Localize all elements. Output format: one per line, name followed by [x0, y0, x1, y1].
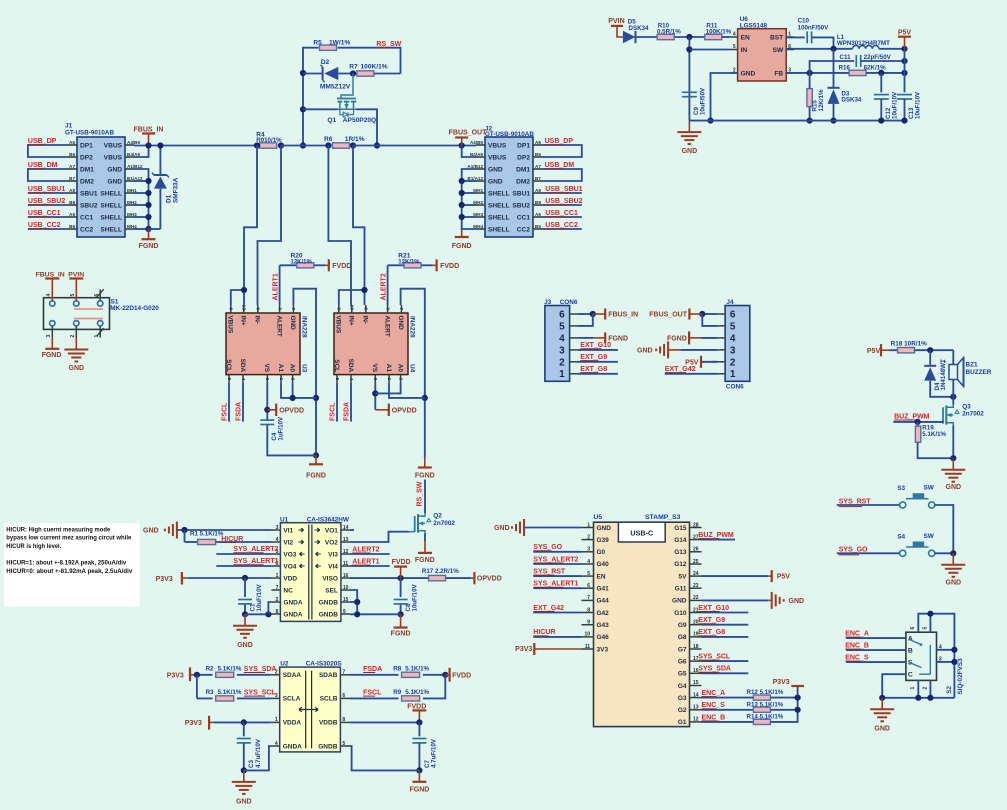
- svg-text:DP1: DP1: [517, 142, 530, 149]
- svg-text:R2: R2: [206, 665, 214, 672]
- svg-text:1W/1%: 1W/1%: [329, 40, 350, 47]
- svg-text:GND: GND: [946, 484, 962, 491]
- svg-text:4: 4: [348, 378, 354, 381]
- svg-text:A6: A6: [69, 140, 75, 145]
- svg-text:G5: G5: [678, 671, 687, 678]
- svg-text:3: 3: [559, 345, 565, 356]
- svg-text:GND: GND: [488, 166, 503, 173]
- svg-text:2: 2: [730, 357, 736, 368]
- svg-text:P5V: P5V: [867, 348, 881, 355]
- svg-text:GND: GND: [741, 70, 756, 77]
- svg-text:B1/A12: B1/A12: [467, 176, 483, 181]
- svg-text:G12: G12: [674, 561, 687, 568]
- svg-text:Q3: Q3: [962, 404, 971, 411]
- svg-text:GND: GND: [946, 579, 962, 586]
- svg-text:IN: IN: [741, 47, 748, 54]
- svg-text:Q2: Q2: [433, 513, 442, 520]
- svg-text:GT-USB-9010AB: GT-USB-9010AB: [485, 131, 534, 138]
- svg-text:FGND: FGND: [667, 336, 687, 343]
- svg-text:2: 2: [559, 357, 565, 368]
- svg-text:4.7uF/10V: 4.7uF/10V: [255, 738, 262, 768]
- svg-text:4: 4: [730, 333, 736, 344]
- svg-text:bypass low current mez asuring: bypass low current mez asuring circut wh…: [6, 536, 132, 542]
- svg-text:VBUS: VBUS: [104, 154, 123, 161]
- svg-text:GND: GND: [143, 528, 159, 535]
- svg-text:DP1: DP1: [80, 142, 93, 149]
- svg-text:8: 8: [336, 307, 342, 310]
- svg-text:GND: GND: [397, 316, 404, 331]
- svg-text:SYS_SDA: SYS_SDA: [244, 666, 277, 673]
- svg-text:A7: A7: [69, 164, 75, 169]
- svg-text:ALERT2: ALERT2: [380, 273, 387, 300]
- svg-text:EXT_G42: EXT_G42: [533, 605, 564, 612]
- svg-text:A8: A8: [535, 188, 541, 193]
- svg-text:B1/A12: B1/A12: [127, 176, 143, 181]
- svg-text:1: 1: [559, 369, 565, 380]
- svg-text:SCLB: SCLB: [320, 696, 338, 703]
- svg-text:GT-USB-9010AB: GT-USB-9010AB: [65, 130, 114, 137]
- svg-text:1uF/10V: 1uF/10V: [277, 416, 284, 441]
- svg-text:FGND: FGND: [391, 631, 411, 638]
- svg-text:SHELL: SHELL: [488, 190, 510, 197]
- svg-text:0.5R/1%: 0.5R/1%: [657, 29, 681, 36]
- svg-text:IN+: IN+: [240, 316, 247, 326]
- svg-text:VBUS: VBUS: [488, 154, 507, 161]
- svg-text:G14: G14: [674, 537, 687, 544]
- svg-text:GND: GND: [874, 726, 890, 733]
- svg-text:DM1: DM1: [516, 166, 530, 173]
- svg-text:GND: GND: [789, 598, 805, 605]
- svg-text:BUZ_PWM: BUZ_PWM: [894, 413, 930, 420]
- svg-text:5: 5: [226, 378, 232, 381]
- svg-text:USB_SBU2: USB_SBU2: [545, 198, 582, 205]
- svg-text:G46: G46: [597, 634, 610, 641]
- svg-text:U1: U1: [280, 516, 289, 523]
- svg-text:SHELL: SHELL: [488, 214, 510, 221]
- svg-text:4: 4: [240, 378, 246, 381]
- svg-text:2: 2: [289, 378, 295, 381]
- svg-text:A6: A6: [535, 140, 541, 145]
- svg-text:SHELL: SHELL: [488, 202, 510, 209]
- svg-text:FGND: FGND: [306, 472, 326, 479]
- svg-text:SBU2: SBU2: [80, 202, 98, 209]
- svg-text:OPVDD: OPVDD: [392, 407, 417, 414]
- svg-text:GND: GND: [494, 525, 510, 532]
- svg-text:DM2: DM2: [80, 178, 94, 185]
- svg-text:VBUS: VBUS: [488, 142, 507, 149]
- svg-text:5.1K/1%: 5.1K/1%: [218, 665, 242, 672]
- svg-text:P3V3: P3V3: [515, 646, 532, 653]
- svg-text:SIQ-02FVS3: SIQ-02FVS3: [957, 658, 964, 695]
- svg-text:D1: D1: [166, 194, 173, 203]
- svg-text:Q1: Q1: [327, 117, 336, 124]
- svg-text:IN-: IN-: [254, 316, 261, 325]
- svg-text:CA-IS3642HW: CA-IS3642HW: [307, 516, 350, 523]
- svg-text:MH2: MH2: [473, 200, 483, 205]
- svg-text:FSCL: FSCL: [363, 690, 382, 697]
- svg-text:GND: GND: [107, 166, 122, 173]
- svg-text:B5: B5: [535, 224, 541, 229]
- svg-text:10uF/10V: 10uF/10V: [256, 583, 263, 611]
- svg-text:5.1K/1%: 5.1K/1%: [922, 431, 946, 438]
- svg-text:G6: G6: [678, 658, 687, 665]
- svg-text:10: 10: [241, 305, 247, 311]
- svg-text:GNDB: GNDB: [319, 611, 338, 618]
- svg-text:FBUS_IN: FBUS_IN: [608, 312, 638, 319]
- svg-text:SBU1: SBU1: [512, 190, 530, 197]
- svg-text:G10: G10: [674, 610, 687, 617]
- svg-text:FGND: FGND: [608, 336, 628, 343]
- svg-text:HICUR=1: about +-8.192A peak,: HICUR=1: about +-8.192A peak, 250uA/div: [6, 560, 127, 566]
- svg-text:GND: GND: [237, 642, 253, 649]
- svg-text:R18 10R/1%: R18 10R/1%: [891, 340, 928, 347]
- svg-text:R5: R5: [313, 40, 322, 47]
- svg-text:6: 6: [559, 310, 565, 321]
- svg-text:10uF/10V: 10uF/10V: [412, 583, 419, 611]
- svg-text:INA228: INA228: [409, 316, 416, 338]
- svg-text:10uF/50V: 10uF/50V: [700, 87, 707, 115]
- svg-text:R13 5.1K/1%: R13 5.1K/1%: [747, 701, 784, 708]
- svg-text:4.7uF/10V: 4.7uF/10V: [430, 738, 437, 768]
- svg-text:SYS_ALERT1: SYS_ALERT1: [233, 558, 278, 565]
- svg-text:SCLA: SCLA: [283, 696, 301, 703]
- svg-text:HICUR is high level.: HICUR is high level.: [6, 544, 61, 550]
- svg-text:C: C: [908, 672, 913, 679]
- svg-text:A1/B12: A1/B12: [467, 164, 483, 169]
- svg-text:USB_CC1: USB_CC1: [28, 210, 61, 217]
- svg-text:DP2: DP2: [80, 154, 93, 161]
- svg-text:VDDA: VDDA: [283, 720, 302, 727]
- svg-text:FGND: FGND: [409, 787, 429, 794]
- svg-text:10uF/10V: 10uF/10V: [891, 91, 898, 119]
- svg-text:5: 5: [559, 321, 565, 332]
- svg-text:FSCL: FSCL: [222, 402, 229, 421]
- svg-text:DSK34: DSK34: [841, 97, 862, 104]
- svg-text:HICUR: HICUR: [221, 536, 243, 543]
- svg-text:A8: A8: [69, 188, 75, 193]
- svg-text:USB_DP: USB_DP: [28, 138, 57, 145]
- svg-text:VBUS: VBUS: [335, 316, 342, 334]
- svg-text:EN: EN: [597, 573, 606, 580]
- svg-text:VBUS: VBUS: [227, 316, 234, 334]
- svg-text:3: 3: [384, 307, 390, 310]
- svg-text:SDAB: SDAB: [319, 672, 338, 679]
- svg-text:G2: G2: [678, 707, 687, 714]
- svg-text:22pF/50V: 22pF/50V: [864, 54, 892, 61]
- svg-text:SDAA: SDAA: [283, 672, 302, 679]
- svg-text:5.1K/1%: 5.1K/1%: [405, 665, 429, 672]
- svg-text:GND: GND: [672, 598, 687, 605]
- svg-text:EXT_G42: EXT_G42: [665, 366, 696, 373]
- svg-text:2: 2: [70, 335, 76, 338]
- svg-text:MH3: MH3: [473, 212, 483, 217]
- svg-text:3: 3: [730, 345, 736, 356]
- svg-text:CA-IS3020S: CA-IS3020S: [306, 661, 343, 668]
- svg-text:U2: U2: [280, 661, 289, 668]
- svg-text:FBUS_IN: FBUS_IN: [134, 126, 164, 133]
- svg-text:G15: G15: [674, 525, 687, 532]
- svg-text:BST: BST: [770, 34, 783, 41]
- svg-text:FVDD: FVDD: [452, 672, 471, 679]
- svg-text:A0: A0: [396, 364, 403, 373]
- svg-text:+: +: [943, 359, 947, 366]
- svg-text:R1 5.1K/1%: R1 5.1K/1%: [190, 531, 224, 538]
- svg-text:3V3: 3V3: [597, 646, 609, 653]
- svg-text:2n7002: 2n7002: [962, 411, 984, 418]
- svg-text:3: 3: [46, 335, 52, 338]
- svg-text:6: 6: [910, 627, 916, 630]
- svg-text:S4: S4: [897, 534, 905, 541]
- svg-text:FGND: FGND: [139, 243, 159, 250]
- svg-text:SHELL: SHELL: [100, 226, 122, 233]
- svg-text:R010/1%: R010/1%: [256, 137, 282, 144]
- svg-text:R3: R3: [206, 689, 214, 696]
- svg-text:5: 5: [334, 378, 340, 381]
- svg-text:SEL: SEL: [325, 587, 338, 594]
- svg-text:R9: R9: [393, 689, 401, 696]
- svg-text:MH1: MH1: [127, 188, 137, 193]
- svg-text:G13: G13: [674, 549, 687, 556]
- svg-text:FSDA: FSDA: [363, 666, 382, 673]
- svg-text:G3: G3: [678, 695, 687, 702]
- svg-text:4: 4: [559, 333, 565, 344]
- svg-text:PVIN: PVIN: [608, 18, 624, 25]
- svg-text:USB_SBU1: USB_SBU1: [545, 186, 582, 193]
- svg-text:100K/1%: 100K/1%: [706, 29, 732, 36]
- svg-text:SHELL: SHELL: [488, 226, 510, 233]
- svg-text:FBUS_OUT: FBUS_OUT: [449, 129, 487, 136]
- svg-text:6: 6: [372, 378, 378, 381]
- svg-text:2: 2: [397, 378, 403, 381]
- svg-text:5: 5: [923, 627, 929, 630]
- svg-text:ALERT2: ALERT2: [352, 546, 379, 553]
- svg-text:B7: B7: [535, 176, 541, 181]
- svg-text:G44: G44: [597, 598, 610, 605]
- svg-text:MH3: MH3: [127, 212, 137, 217]
- svg-text:R8: R8: [393, 665, 401, 672]
- svg-text:A4/B9: A4/B9: [127, 140, 140, 145]
- svg-text:5: 5: [70, 294, 76, 297]
- svg-text:A0: A0: [288, 364, 295, 373]
- svg-text:USB-C: USB-C: [630, 528, 653, 537]
- svg-text:ENC_B: ENC_B: [845, 643, 869, 650]
- svg-text:2n7002: 2n7002: [433, 520, 455, 527]
- svg-text:FVDD: FVDD: [332, 263, 351, 270]
- svg-text:4: 4: [46, 294, 52, 297]
- svg-text:SBU2: SBU2: [512, 202, 530, 209]
- svg-text:A7: A7: [535, 164, 541, 169]
- svg-text:SYS_ALERT1: SYS_ALERT1: [533, 581, 578, 588]
- svg-text:SHELL: SHELL: [100, 190, 122, 197]
- svg-text:SW: SW: [924, 533, 935, 540]
- svg-text:SW: SW: [924, 485, 935, 492]
- svg-text:1: 1: [386, 378, 392, 381]
- svg-text:1: 1: [278, 378, 284, 381]
- svg-text:G1: G1: [678, 719, 687, 726]
- svg-text:VDDB: VDDB: [319, 720, 338, 727]
- svg-text:VO4: VO4: [283, 563, 296, 570]
- svg-text:R17 2.2R/1%: R17 2.2R/1%: [422, 568, 459, 575]
- svg-text:VI1: VI1: [283, 527, 293, 534]
- svg-text:G8: G8: [678, 634, 687, 641]
- svg-text:SHELL: SHELL: [100, 214, 122, 221]
- svg-text:GND: GND: [69, 365, 85, 372]
- svg-text:B7: B7: [69, 176, 75, 181]
- svg-text:7: 7: [290, 307, 296, 310]
- svg-text:BUZ_PWM: BUZ_PWM: [698, 532, 734, 539]
- svg-text:USB_SBU1: USB_SBU1: [28, 186, 65, 193]
- svg-text:G43: G43: [597, 622, 610, 629]
- svg-text:A5: A5: [535, 212, 541, 217]
- svg-text:S2: S2: [946, 685, 953, 693]
- svg-text:IN-: IN-: [362, 316, 369, 325]
- svg-text:J4: J4: [726, 299, 734, 306]
- svg-text:SYS_SDA: SYS_SDA: [698, 666, 731, 673]
- svg-text:SHELL: SHELL: [100, 202, 122, 209]
- svg-text:GND: GND: [289, 316, 296, 331]
- svg-text:A5: A5: [69, 212, 75, 217]
- svg-text:P3V3: P3V3: [156, 576, 173, 583]
- svg-text:R14 5.1K/1%: R14 5.1K/1%: [747, 714, 784, 721]
- svg-text:3: 3: [939, 656, 942, 662]
- svg-text:EXT_G9: EXT_G9: [698, 617, 725, 624]
- svg-text:GND: GND: [682, 148, 698, 155]
- svg-text:9: 9: [363, 307, 369, 310]
- svg-text:FSDA: FSDA: [344, 402, 351, 421]
- svg-text:INA228: INA228: [301, 316, 308, 338]
- svg-text:GNDB: GNDB: [318, 743, 337, 750]
- svg-text:GND: GND: [597, 525, 612, 532]
- svg-text:EXT_G10: EXT_G10: [698, 605, 729, 612]
- svg-text:LGS5148: LGS5148: [740, 23, 768, 30]
- svg-text:62K/1%: 62K/1%: [864, 64, 887, 71]
- svg-text:SW: SW: [773, 47, 784, 54]
- svg-text:AP50P20Q: AP50P20Q: [343, 117, 376, 124]
- svg-text:FVDD: FVDD: [392, 559, 411, 566]
- svg-text:MH2: MH2: [127, 200, 137, 205]
- svg-text:MH4: MH4: [473, 224, 483, 229]
- svg-text:G7: G7: [678, 646, 687, 653]
- svg-text:GND: GND: [488, 178, 503, 185]
- svg-text:10uF/10V: 10uF/10V: [915, 91, 922, 119]
- svg-text:G0: G0: [597, 549, 606, 556]
- svg-text:IN+: IN+: [348, 316, 355, 326]
- svg-text:1: 1: [730, 369, 736, 380]
- svg-text:ENC_S: ENC_S: [845, 655, 869, 662]
- svg-text:6: 6: [264, 378, 270, 381]
- svg-text:B6: B6: [69, 152, 75, 157]
- svg-text:6: 6: [94, 294, 100, 297]
- svg-text:FGND: FGND: [415, 472, 435, 479]
- svg-text:EN: EN: [741, 34, 750, 41]
- svg-text:B8: B8: [69, 200, 75, 205]
- svg-text:ALERT1: ALERT1: [272, 273, 279, 300]
- svg-text:R16: R16: [839, 64, 851, 71]
- svg-text:CON6: CON6: [560, 299, 578, 306]
- svg-text:J3: J3: [544, 299, 552, 306]
- svg-text:100K/1%: 100K/1%: [361, 64, 388, 71]
- svg-text:ENC_S: ENC_S: [702, 702, 726, 709]
- svg-text:WPN3012H4R7MT: WPN3012H4R7MT: [837, 40, 890, 47]
- svg-text:ENC_A: ENC_A: [845, 631, 869, 638]
- svg-text:VI4: VI4: [328, 563, 338, 570]
- svg-text:100nF/50V: 100nF/50V: [798, 24, 829, 31]
- svg-text:P5V: P5V: [777, 574, 791, 581]
- svg-text:P3V3: P3V3: [185, 720, 202, 727]
- svg-text:4: 4: [939, 644, 942, 650]
- svg-text:BUZZER: BUZZER: [966, 369, 992, 376]
- svg-text:MK-22D14-G020: MK-22D14-G020: [110, 305, 159, 312]
- svg-text:EXT_G8: EXT_G8: [580, 366, 607, 373]
- svg-text:R12 5.1K/1%: R12 5.1K/1%: [747, 689, 784, 696]
- svg-text:FGND: FGND: [42, 352, 62, 359]
- svg-text:GNDA: GNDA: [283, 743, 302, 750]
- svg-text:CC2: CC2: [80, 226, 94, 233]
- svg-text:GNDB: GNDB: [319, 599, 338, 606]
- svg-text:VBUS: VBUS: [104, 142, 123, 149]
- svg-text:ALERT: ALERT: [383, 316, 390, 337]
- svg-text:DSK34: DSK34: [629, 25, 650, 32]
- svg-text:A1/B12: A1/B12: [127, 164, 143, 169]
- svg-text:D2: D2: [321, 59, 330, 66]
- svg-text:FVDD: FVDD: [440, 263, 459, 270]
- svg-text:RS_SW: RS_SW: [416, 481, 423, 506]
- svg-text:SCL: SCL: [225, 359, 232, 372]
- svg-text:U4: U4: [409, 364, 416, 373]
- svg-text:VI3: VI3: [328, 551, 338, 558]
- svg-text:GND: GND: [236, 798, 252, 805]
- svg-text:USB_CC1: USB_CC1: [545, 210, 578, 217]
- svg-text:USB_DP: USB_DP: [545, 138, 574, 145]
- svg-text:SMF33A: SMF33A: [173, 177, 180, 203]
- svg-text:9: 9: [255, 307, 261, 310]
- svg-text:MH1: MH1: [473, 188, 483, 193]
- svg-text:FGND: FGND: [415, 557, 435, 564]
- svg-text:SYS_GO: SYS_GO: [839, 547, 868, 554]
- svg-text:G39: G39: [597, 537, 610, 544]
- svg-text:VO3: VO3: [283, 551, 296, 558]
- svg-text:GNDA: GNDA: [283, 611, 302, 618]
- svg-text:DM1: DM1: [80, 166, 94, 173]
- svg-text:12K/1%: 12K/1%: [398, 260, 420, 266]
- svg-text:VDD: VDD: [283, 575, 297, 582]
- svg-text:ALERT1: ALERT1: [352, 559, 379, 566]
- svg-text:VS: VS: [263, 364, 270, 373]
- svg-text:HICUR=0: about +-81.92mA peak,: HICUR=0: about +-81.92mA peak, 2.5uA/div: [6, 569, 133, 575]
- svg-text:G4: G4: [678, 683, 687, 690]
- svg-text:VISO: VISO: [322, 575, 338, 582]
- svg-text:A4/B9: A4/B9: [470, 140, 483, 145]
- svg-text:ENC_B: ENC_B: [702, 714, 726, 721]
- svg-text:GNDA: GNDA: [283, 599, 302, 606]
- svg-text:SCL: SCL: [333, 359, 340, 372]
- svg-text:SYS_GO: SYS_GO: [533, 544, 562, 551]
- svg-text:SDA: SDA: [347, 359, 354, 373]
- svg-text:CON6: CON6: [726, 383, 744, 390]
- svg-text:OPVDD: OPVDD: [477, 576, 502, 583]
- svg-text:SYS_RST: SYS_RST: [839, 498, 872, 505]
- svg-text:HICUR: High cuernt measuring m: HICUR: High cuernt measuring mode: [6, 528, 111, 534]
- svg-text:6: 6: [730, 310, 736, 321]
- svg-text:FSCL: FSCL: [330, 402, 337, 421]
- svg-text:U3: U3: [301, 364, 308, 373]
- svg-text:J1: J1: [65, 123, 73, 130]
- svg-text:1: 1: [910, 687, 916, 690]
- svg-text:G40: G40: [597, 561, 610, 568]
- svg-text:SBU1: SBU1: [80, 190, 98, 197]
- svg-text:B8: B8: [535, 200, 541, 205]
- svg-text:SYS_SCL: SYS_SCL: [698, 654, 731, 661]
